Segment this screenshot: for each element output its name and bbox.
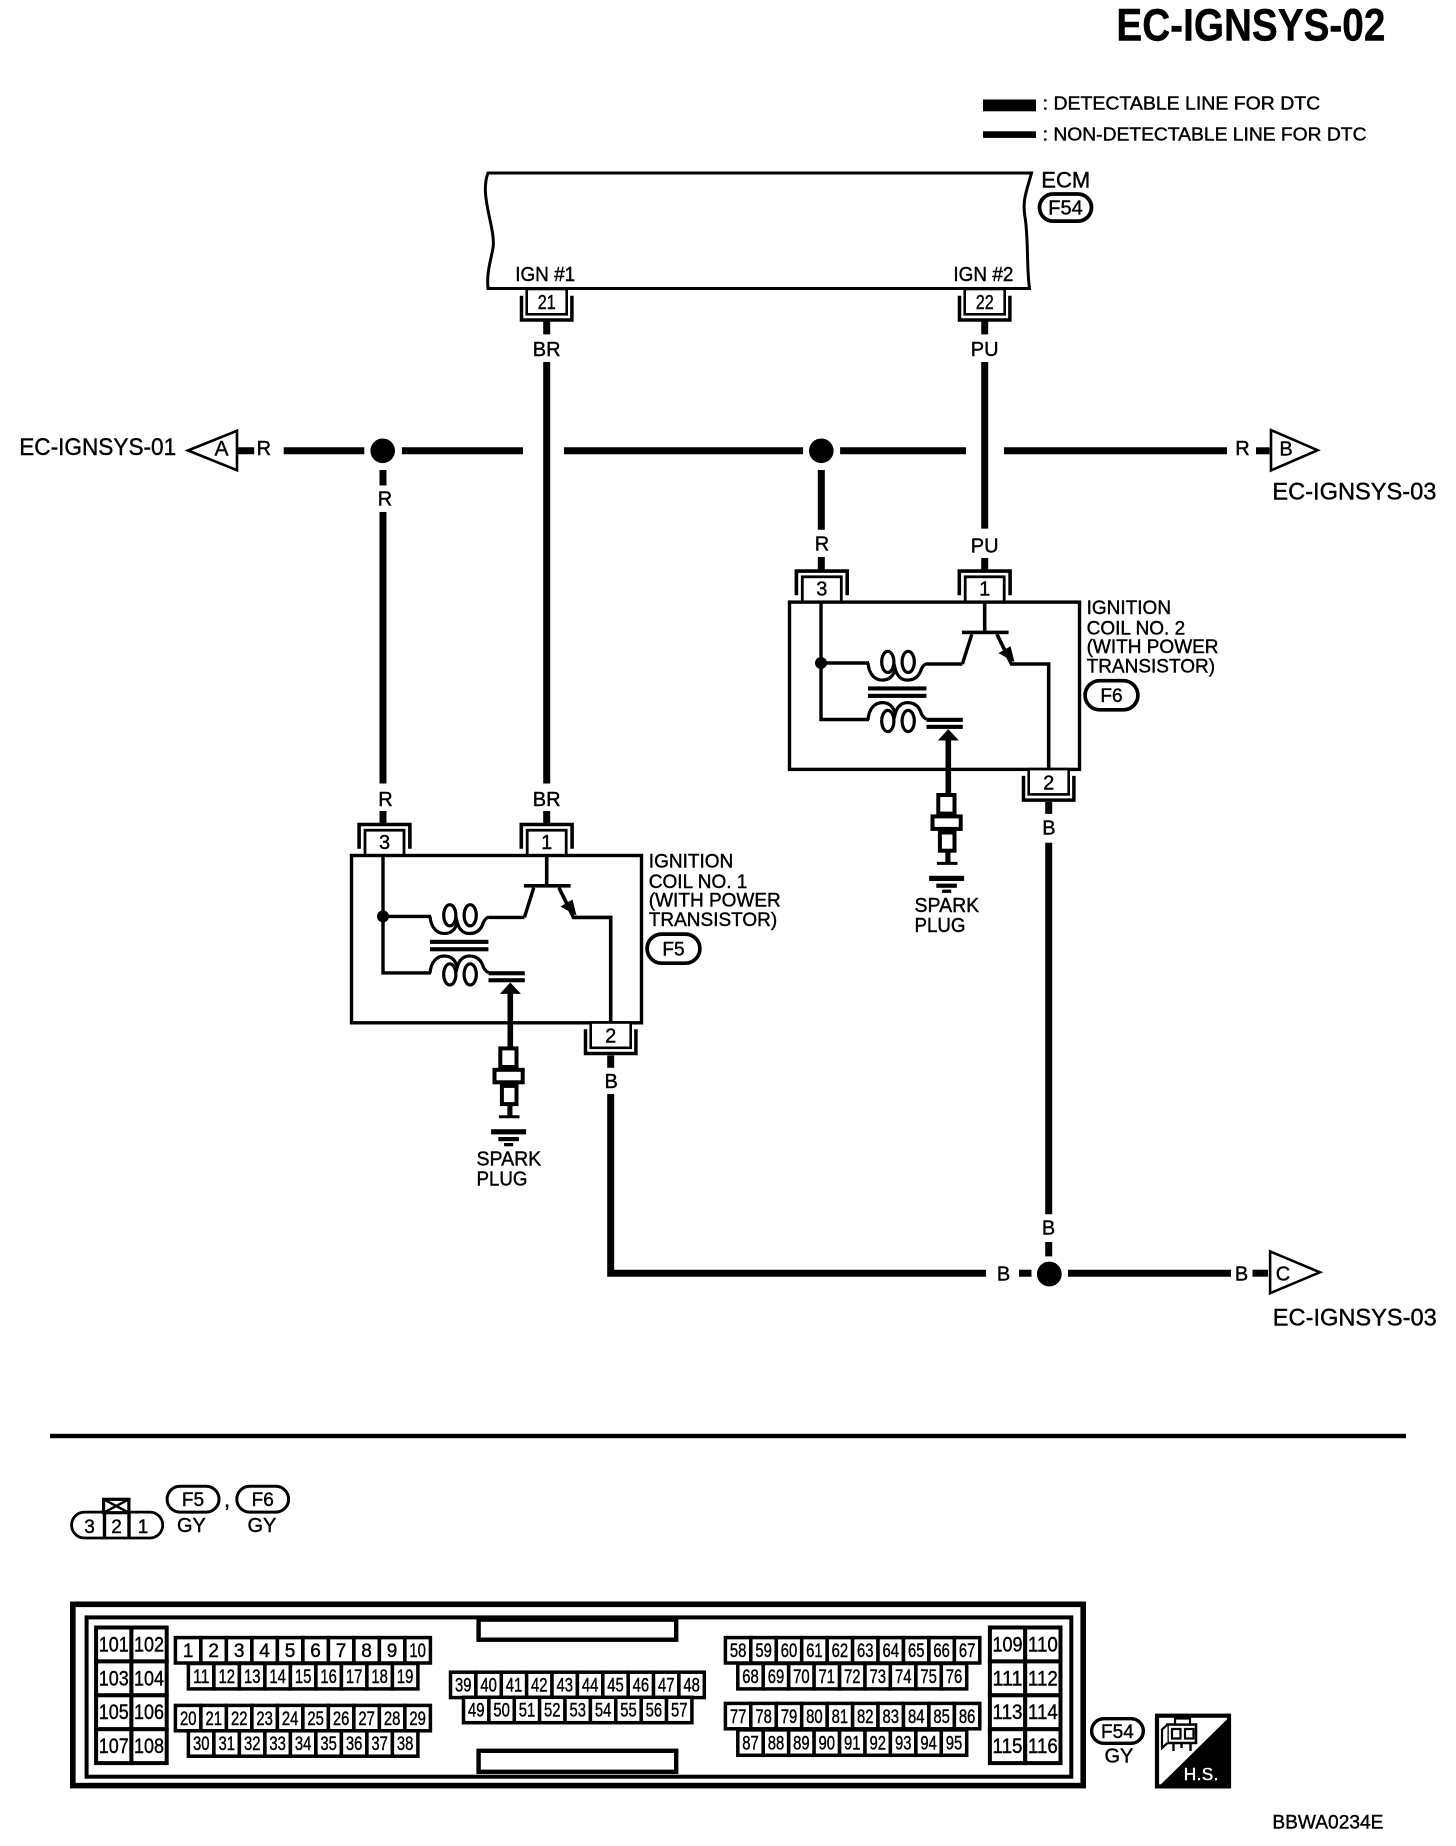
svg-text:107: 107 <box>99 1735 129 1758</box>
svg-text:58: 58 <box>730 1641 747 1662</box>
transistor Q1 emitter leg to primary <box>489 888 534 918</box>
svg-text:102: 102 <box>134 1634 164 1657</box>
svg-text:24: 24 <box>282 1709 299 1730</box>
svg-text:PU: PU <box>971 339 999 361</box>
svg-text:50: 50 <box>493 1701 510 1722</box>
svg-text:EC-IGNSYS-01: EC-IGNSYS-01 <box>19 434 176 461</box>
ignition coil no.1 description <box>649 852 781 931</box>
svg-text:93: 93 <box>895 1733 912 1754</box>
svg-text:1: 1 <box>979 579 990 601</box>
svg-text:39: 39 <box>455 1676 472 1697</box>
svg-text:49: 49 <box>468 1701 485 1722</box>
svg-text:SPARK: SPARK <box>477 1149 542 1171</box>
svg-text:33: 33 <box>269 1734 286 1755</box>
transistor Q1 collector leg <box>559 888 611 1023</box>
transistor Q2 base bar <box>962 631 1009 635</box>
wire B from coil1 down and right (bottom bus) <box>611 1094 986 1273</box>
svg-text:61: 61 <box>806 1641 823 1662</box>
ECM box <box>485 173 1031 289</box>
svg-text:45: 45 <box>607 1676 624 1697</box>
wire R bus segment 1 <box>284 447 365 454</box>
svg-text:27: 27 <box>358 1709 375 1730</box>
ECM connector terminals 39-48 <box>451 1672 705 1697</box>
svg-text:111: 111 <box>993 1667 1023 1690</box>
wire B stub above junction <box>1045 1242 1052 1256</box>
off-page arrow B <box>1271 430 1318 470</box>
wire R bus segment 3 <box>564 447 803 454</box>
svg-text:GY: GY <box>248 1515 277 1537</box>
ECM connector outer outline <box>73 1604 1083 1785</box>
svg-text:31: 31 <box>218 1734 235 1755</box>
ECM connector top slot <box>479 1620 677 1640</box>
transistor Q2 emitter leg to primary <box>927 634 972 664</box>
svg-text:80: 80 <box>806 1707 823 1728</box>
svg-text:112: 112 <box>1028 1667 1058 1690</box>
svg-text:1: 1 <box>138 1517 149 1538</box>
connector ref F54 (bottom) <box>1092 1719 1144 1744</box>
legend non-detectable line sample <box>983 131 1036 138</box>
svg-text:EC-IGNSYS-03: EC-IGNSYS-03 <box>1273 1305 1437 1332</box>
svg-text:B: B <box>1042 1218 1055 1240</box>
svg-text:47: 47 <box>658 1676 675 1697</box>
connector ref F5 (legend) <box>167 1486 219 1512</box>
svg-text:8: 8 <box>361 1641 372 1662</box>
svg-text:69: 69 <box>768 1667 785 1688</box>
svg-text:BBWA0234E: BBWA0234E <box>1272 1813 1383 1834</box>
svg-text:3: 3 <box>379 832 390 854</box>
ignition coil no.1 pin 2 <box>586 1023 636 1054</box>
svg-text:IGNITION: IGNITION <box>649 852 733 873</box>
svg-text:35: 35 <box>320 1734 337 1755</box>
svg-text:TRANSISTOR): TRANSISTOR) <box>649 910 777 931</box>
svg-text:GY: GY <box>177 1515 206 1537</box>
ECM connector terminals 68-76 <box>738 1664 967 1689</box>
coil2 internal junction node <box>815 657 827 669</box>
wire R branch1 vertical <box>380 512 387 784</box>
svg-text:20: 20 <box>180 1709 197 1730</box>
svg-text:10: 10 <box>409 1641 426 1662</box>
svg-text:B: B <box>605 1071 618 1093</box>
svg-text:67: 67 <box>959 1641 976 1662</box>
svg-text:59: 59 <box>755 1641 772 1662</box>
svg-text:15: 15 <box>295 1667 312 1688</box>
svg-text:25: 25 <box>307 1709 324 1730</box>
svg-text:53: 53 <box>569 1701 586 1722</box>
svg-text:3: 3 <box>84 1517 95 1538</box>
svg-text:F6: F6 <box>252 1490 274 1511</box>
svg-text:R: R <box>257 438 271 460</box>
svg-text:90: 90 <box>819 1733 836 1754</box>
svg-text:62: 62 <box>832 1641 849 1662</box>
separator line <box>50 1434 1406 1438</box>
ground (spark plug 2) <box>929 876 964 893</box>
coil1 internal wire pin3 to primary <box>383 856 431 973</box>
junction node (R bus / coil1 branch) <box>370 439 395 464</box>
ECM connector terminals 77-86 <box>725 1703 979 1728</box>
svg-text:113: 113 <box>993 1701 1023 1724</box>
svg-text:46: 46 <box>633 1676 650 1697</box>
junction node (R bus / coil2 branch) <box>809 439 834 464</box>
svg-text:74: 74 <box>895 1667 912 1688</box>
svg-text:2: 2 <box>208 1641 219 1662</box>
svg-text:65: 65 <box>908 1641 925 1662</box>
ECM connector terminals 58-67 <box>725 1638 979 1663</box>
svg-text:9: 9 <box>387 1641 398 1662</box>
svg-text:23: 23 <box>256 1709 273 1730</box>
H.S. harness-side view mark <box>1157 1716 1229 1787</box>
svg-text:77: 77 <box>730 1707 747 1728</box>
wire R bus segment 5 <box>1004 447 1227 454</box>
coil1 wire junction to primary winding <box>383 915 431 918</box>
svg-text:3: 3 <box>234 1641 245 1662</box>
svg-text:3: 3 <box>816 579 827 601</box>
svg-text:,: , <box>224 1487 230 1512</box>
svg-text:72: 72 <box>844 1667 861 1688</box>
svg-text:22: 22 <box>231 1709 248 1730</box>
transistor Q2 collector leg <box>997 634 1049 769</box>
svg-text:R: R <box>378 489 392 511</box>
svg-text:73: 73 <box>869 1667 886 1688</box>
coil1 HV diode <box>500 983 521 994</box>
coil1 internal junction node <box>377 910 389 922</box>
svg-text:17: 17 <box>346 1667 363 1688</box>
wire R stub into coil1 pin 3 <box>380 811 387 825</box>
svg-text:R: R <box>378 789 392 811</box>
coil2 HV lead to spark plug <box>945 739 951 794</box>
wire B stub below coil1 pin 2 <box>607 1056 614 1068</box>
svg-text:F5: F5 <box>182 1490 204 1511</box>
svg-text:IGN #1: IGN #1 <box>515 264 575 286</box>
svg-text:B: B <box>1042 818 1055 840</box>
wire R bus segment 4 <box>840 447 966 454</box>
svg-text:85: 85 <box>933 1707 950 1728</box>
svg-text:38: 38 <box>397 1734 414 1755</box>
ECM connector terminals 87-95 <box>738 1730 967 1755</box>
coil1 transformer core <box>430 940 488 952</box>
svg-text:114: 114 <box>1028 1701 1058 1724</box>
svg-text:55: 55 <box>620 1701 637 1722</box>
svg-text:105: 105 <box>99 1701 129 1724</box>
svg-text:44: 44 <box>582 1676 599 1697</box>
transistor Q2 collector arrow <box>999 646 1015 662</box>
junction node (bottom B bus) <box>1037 1262 1062 1287</box>
svg-text:PLUG: PLUG <box>477 1169 528 1191</box>
svg-text:94: 94 <box>920 1733 937 1754</box>
ECM connector terminals 20-29 <box>175 1705 430 1730</box>
svg-text:56: 56 <box>646 1701 663 1722</box>
svg-text:71: 71 <box>819 1667 836 1688</box>
svg-text:ECM: ECM <box>1041 168 1090 193</box>
svg-text:51: 51 <box>519 1701 536 1722</box>
svg-text:R: R <box>815 534 829 556</box>
svg-text:19: 19 <box>397 1667 414 1688</box>
svg-text:63: 63 <box>857 1641 874 1662</box>
svg-text:95: 95 <box>946 1733 963 1754</box>
svg-text:B: B <box>1235 1264 1248 1286</box>
legend detectable line sample <box>983 100 1036 112</box>
ignition coil no.2 pin 3 <box>796 571 847 602</box>
wire BR vertical <box>543 362 550 784</box>
svg-text:52: 52 <box>544 1701 561 1722</box>
svg-text:115: 115 <box>993 1735 1023 1758</box>
svg-text:81: 81 <box>832 1707 849 1728</box>
svg-text:84: 84 <box>908 1707 925 1728</box>
svg-text:43: 43 <box>556 1676 573 1697</box>
transistor Q2 base wire from pin 1 <box>983 603 987 631</box>
wire PU stub below terminal 22 <box>981 321 988 334</box>
coil2 internal wire pin3 to primary <box>821 603 869 720</box>
connector ref F5 <box>647 934 700 963</box>
svg-text:TRANSISTOR): TRANSISTOR) <box>1087 656 1215 677</box>
svg-text:16: 16 <box>320 1667 337 1688</box>
spark plug 1 <box>495 1048 523 1116</box>
wire stub from arrow A <box>238 447 254 454</box>
wire stub into arrow C <box>1253 1270 1269 1277</box>
ignition coil no.2 pin 2 <box>1024 769 1074 800</box>
svg-text:PLUG: PLUG <box>915 915 966 937</box>
svg-text:F54: F54 <box>1048 197 1082 219</box>
svg-text:: NON-DETECTABLE LINE FOR DTC: : NON-DETECTABLE LINE FOR DTC <box>1043 124 1367 144</box>
svg-text:IGNITION: IGNITION <box>1087 598 1171 619</box>
svg-text:21: 21 <box>205 1709 222 1730</box>
spark plug 2 <box>933 795 961 863</box>
svg-text:2: 2 <box>111 1517 122 1538</box>
svg-text:5: 5 <box>285 1641 296 1662</box>
svg-text:66: 66 <box>933 1641 950 1662</box>
transistor Q1 collector arrow <box>561 900 577 916</box>
svg-text:57: 57 <box>671 1701 688 1722</box>
ignition coil no. 1 box (F5) <box>352 856 642 1023</box>
svg-text:34: 34 <box>295 1734 312 1755</box>
ECM connector terminals 11-19 <box>188 1664 418 1689</box>
svg-text:C: C <box>1276 1263 1290 1285</box>
harness connector icon <box>1162 1719 1196 1752</box>
svg-text:76: 76 <box>946 1667 963 1688</box>
svg-text:(WITH POWER: (WITH POWER <box>1087 637 1219 658</box>
ECM connector terminals 30-38 <box>188 1731 418 1756</box>
svg-text:109: 109 <box>993 1634 1023 1657</box>
svg-text:1: 1 <box>183 1641 194 1662</box>
svg-text:1: 1 <box>541 832 552 854</box>
svg-text:42: 42 <box>531 1676 548 1697</box>
wire BR stub below terminal 21 <box>543 321 550 334</box>
svg-text:87: 87 <box>742 1733 759 1754</box>
svg-text:21: 21 <box>538 292 556 314</box>
svg-text:B: B <box>997 1264 1010 1286</box>
svg-text:79: 79 <box>781 1707 798 1728</box>
svg-text:54: 54 <box>595 1701 612 1722</box>
svg-text:H.S.: H.S. <box>1184 1765 1219 1785</box>
svg-text:108: 108 <box>134 1735 164 1758</box>
svg-text:12: 12 <box>218 1667 235 1688</box>
ignition coil no.1 pin 1 <box>521 825 572 856</box>
transistor Q1 base wire from pin 1 <box>545 856 549 884</box>
coil2 transformer primary winding <box>868 651 927 680</box>
svg-text:BR: BR <box>533 789 561 811</box>
svg-text:(WITH POWER: (WITH POWER <box>649 891 781 912</box>
wire R branch2 vertical <box>818 470 825 530</box>
wire PU stub into coil2 pin 1 <box>981 558 988 571</box>
ground (spark plug 1) <box>491 1129 526 1146</box>
svg-text:GY: GY <box>1105 1746 1134 1768</box>
svg-text:7: 7 <box>336 1641 347 1662</box>
svg-text:11: 11 <box>193 1667 210 1688</box>
wire B bottom bus stub <box>1019 1270 1032 1277</box>
ignition coil no.1 pin 3 <box>359 825 410 856</box>
svg-text:75: 75 <box>920 1667 937 1688</box>
svg-text:PU: PU <box>971 536 999 558</box>
svg-text:IGN #2: IGN #2 <box>953 264 1013 286</box>
svg-text:: DETECTABLE LINE FOR DTC: : DETECTABLE LINE FOR DTC <box>1043 94 1321 114</box>
svg-text:82: 82 <box>857 1707 874 1728</box>
svg-text:6: 6 <box>310 1641 321 1662</box>
svg-text:36: 36 <box>346 1734 363 1755</box>
wire B vertical from coil2 <box>1045 843 1052 1215</box>
wire B stub below coil2 pin 2 <box>1045 802 1052 814</box>
svg-text:64: 64 <box>883 1641 900 1662</box>
svg-text:SPARK: SPARK <box>915 895 980 917</box>
svg-text:2: 2 <box>1043 772 1054 794</box>
connector ref F54 (ECM) <box>1040 194 1092 221</box>
svg-text:104: 104 <box>134 1667 164 1690</box>
svg-text:BR: BR <box>533 339 561 361</box>
svg-text:EC-IGNSYS-02: EC-IGNSYS-02 <box>1116 0 1385 51</box>
connector key (crossed box) <box>104 1499 129 1512</box>
svg-text:22: 22 <box>976 292 994 314</box>
svg-text:F6: F6 <box>1100 686 1122 707</box>
svg-text:83: 83 <box>883 1707 900 1728</box>
svg-text:4: 4 <box>259 1641 270 1662</box>
connector ref F6 <box>1085 681 1138 710</box>
coil connector face (3-2-1) <box>72 1499 163 1538</box>
svg-text:14: 14 <box>269 1667 286 1688</box>
svg-text:F54: F54 <box>1101 1722 1134 1743</box>
ECM connector terminals 49-57 <box>464 1697 692 1722</box>
wire BR stub into coil1 pin 1 <box>543 811 550 825</box>
svg-text:29: 29 <box>409 1709 426 1730</box>
svg-text:18: 18 <box>371 1667 388 1688</box>
coil1 HV lead to spark plug <box>507 992 513 1047</box>
svg-text:EC-IGNSYS-03: EC-IGNSYS-03 <box>1272 479 1436 506</box>
ignition coil no.2 description <box>1087 598 1219 677</box>
svg-text:A: A <box>214 438 228 461</box>
svg-text:F5: F5 <box>662 939 684 960</box>
coil2 transformer secondary winding <box>868 703 927 732</box>
svg-text:70: 70 <box>793 1667 810 1688</box>
ECM connector inner outline <box>87 1617 1072 1776</box>
ECM connector terminals 109-116 <box>990 1628 1061 1764</box>
ECM terminal 22 <box>960 289 1010 320</box>
ECM connector terminals 101-108 <box>96 1628 167 1764</box>
svg-text:106: 106 <box>134 1701 164 1724</box>
ignition coil no.2 pin 1 <box>959 571 1010 602</box>
svg-text:2: 2 <box>605 1026 616 1048</box>
svg-text:30: 30 <box>193 1734 210 1755</box>
ECM connector bottom slot <box>479 1751 677 1772</box>
ECM connector terminals 1-10 <box>175 1638 430 1663</box>
svg-text:116: 116 <box>1028 1735 1058 1758</box>
transistor Q1 base bar <box>524 884 571 888</box>
ignition coil no. 2 box (F6) <box>790 602 1080 769</box>
svg-text:41: 41 <box>506 1676 523 1697</box>
coil2 wire junction to primary winding <box>821 661 869 664</box>
coil2 HV output bars <box>927 718 963 729</box>
svg-text:32: 32 <box>244 1734 261 1755</box>
svg-text:86: 86 <box>959 1707 976 1728</box>
wire PU vertical <box>981 362 988 529</box>
svg-text:68: 68 <box>742 1667 759 1688</box>
connector ref F6 (legend) <box>237 1486 289 1512</box>
svg-text:103: 103 <box>99 1667 129 1690</box>
svg-text:40: 40 <box>480 1676 497 1697</box>
svg-text:48: 48 <box>683 1676 700 1697</box>
coil1 transformer secondary winding <box>430 956 489 985</box>
svg-text:110: 110 <box>1028 1634 1058 1657</box>
svg-text:60: 60 <box>781 1641 798 1662</box>
svg-text:26: 26 <box>333 1709 350 1730</box>
ECM terminal 21 <box>522 289 572 320</box>
coil2 transformer core <box>868 686 926 697</box>
svg-text:88: 88 <box>768 1733 785 1754</box>
wire R branch1 stub below junction <box>380 470 387 486</box>
svg-text:101: 101 <box>99 1634 129 1657</box>
off-page arrow A <box>188 431 237 470</box>
wire R stub into coil2 pin 3 <box>818 557 825 571</box>
off-page arrow C <box>1270 1251 1320 1293</box>
wire B bottom bus segment <box>1068 1270 1231 1277</box>
coil1 HV output bars <box>489 971 525 982</box>
svg-text:13: 13 <box>244 1667 261 1688</box>
svg-text:28: 28 <box>384 1709 401 1730</box>
svg-text:R: R <box>1235 438 1249 460</box>
wire stub into arrow B <box>1256 447 1270 454</box>
svg-text:92: 92 <box>869 1733 886 1754</box>
svg-text:B: B <box>1279 439 1292 461</box>
svg-text:91: 91 <box>844 1733 861 1754</box>
svg-text:89: 89 <box>793 1733 810 1754</box>
coil1 transformer primary winding <box>430 905 489 934</box>
svg-text:78: 78 <box>755 1707 772 1728</box>
svg-text:37: 37 <box>371 1734 388 1755</box>
wire R bus segment 2 <box>402 447 523 454</box>
coil2 HV diode <box>938 729 959 740</box>
